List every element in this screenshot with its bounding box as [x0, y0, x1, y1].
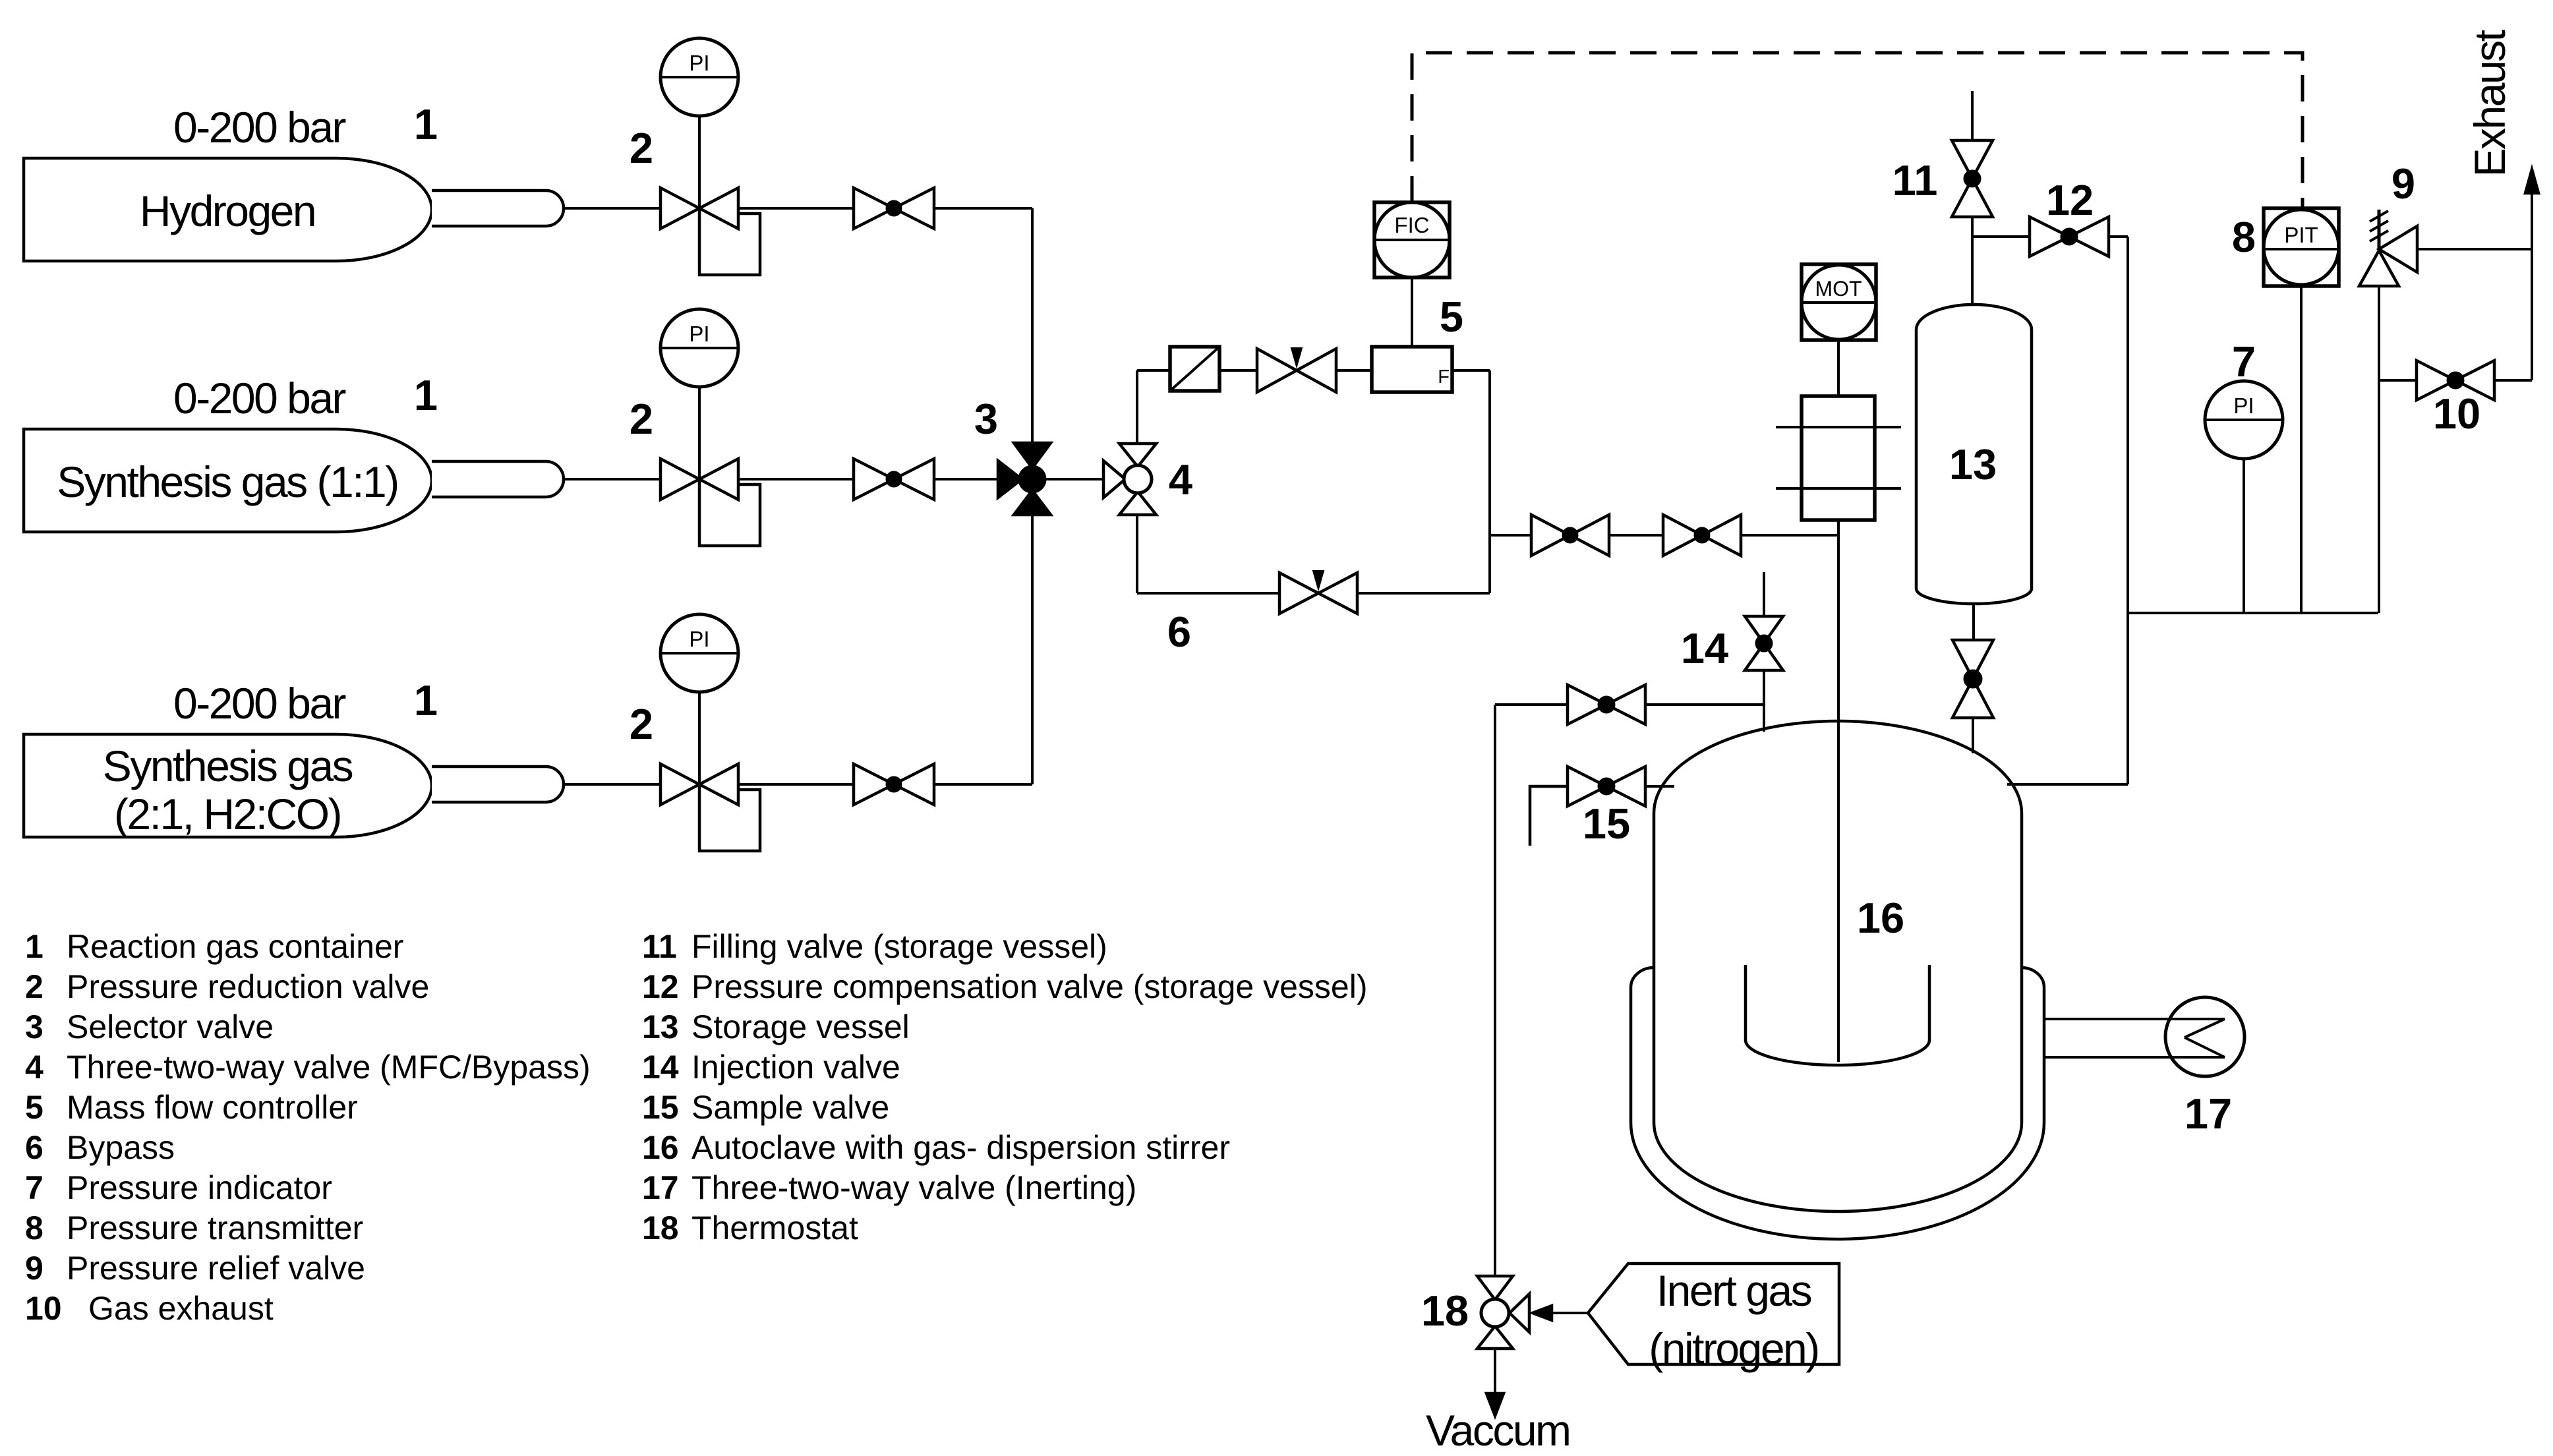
pressure reduction valve 2 (row 1)	[660, 188, 760, 275]
svg-text:8: 8	[25, 1209, 44, 1246]
svg-text:Pressure transmitter: Pressure transmitter	[67, 1209, 363, 1246]
svg-text:F: F	[1438, 366, 1450, 388]
shutoff valve (injection line)	[1568, 685, 1645, 724]
autoclave heating jacket	[1631, 968, 2044, 1239]
svg-text:6: 6	[25, 1129, 44, 1166]
wire injection line left segment	[1495, 703, 1568, 706]
svg-text:Selector valve: Selector valve	[67, 1008, 274, 1045]
svg-text:8: 8	[2232, 213, 2256, 261]
svg-text:1: 1	[414, 676, 438, 724]
label 15	[1583, 800, 1630, 848]
svg-text:9: 9	[25, 1250, 44, 1287]
PI pressure indicator gauge (row 1)	[660, 38, 738, 116]
wire feed line from loop	[1490, 534, 1531, 537]
svg-text:15: 15	[642, 1089, 679, 1126]
label Exhaust	[2465, 30, 2514, 177]
filling valve 11 (storage vessel)	[1952, 140, 1993, 217]
svg-text:5: 5	[1440, 293, 1463, 341]
inert gas (nitrogen) flag	[1588, 1264, 1839, 1373]
svg-text:16: 16	[642, 1129, 679, 1166]
svg-text:4: 4	[25, 1049, 44, 1086]
label 8	[2232, 213, 2256, 261]
svg-text:Vaccum: Vaccum	[1426, 1406, 1570, 1455]
vacuum line with arrow	[1486, 1349, 1504, 1416]
check valve	[1170, 347, 1219, 391]
gas dispersion stirrer cup	[1746, 965, 1929, 1065]
selector valve 3 (three-way, filled)	[998, 443, 1051, 515]
PI gauge stem (row 3)	[698, 691, 701, 784]
wire bypass segment left	[1137, 592, 1279, 595]
label 1 (row 2)	[414, 371, 438, 419]
svg-text:PI: PI	[2233, 393, 2254, 418]
wire autoclave inlet from riser	[2007, 783, 2128, 786]
label 6	[1167, 608, 1191, 656]
svg-text:PI: PI	[689, 627, 709, 651]
wire injection line right segment	[1645, 703, 1764, 706]
svg-text:4: 4	[1169, 455, 1192, 504]
svg-text:13: 13	[642, 1008, 679, 1045]
PI pressure indicator gauge (row 2)	[660, 309, 738, 387]
svg-text:6: 6	[1167, 608, 1191, 656]
label 4	[1169, 455, 1192, 504]
svg-text:0-200 bar: 0-200 bar	[173, 103, 346, 152]
svg-text:Exhaust: Exhaust	[2465, 30, 2514, 177]
magnetic coupling housing	[1776, 396, 1901, 520]
label 0-200 bar (row 1)	[173, 103, 346, 152]
svg-text:(nitrogen): (nitrogen)	[1649, 1324, 1818, 1373]
wire selector valve to valve 4	[1045, 478, 1103, 480]
svg-text:PI: PI	[689, 322, 709, 346]
label 3	[974, 395, 998, 443]
mass flow controller 5	[1372, 347, 1452, 392]
legend column 1	[25, 928, 591, 1327]
svg-text:16: 16	[1857, 894, 1904, 942]
label 9	[2392, 160, 2415, 208]
pressure relief valve 9	[2359, 210, 2417, 286]
wire shutoff valve to collector (row 2)	[934, 478, 998, 480]
wire valve 2 to shutoff valve (row 3)	[738, 783, 855, 786]
wire valve 2 to shutoff valve (row 2)	[738, 478, 855, 480]
svg-text:Reaction gas container: Reaction gas container	[67, 928, 403, 965]
label 18	[1421, 1287, 1469, 1335]
wire valve 10 to exhaust riser	[2494, 379, 2532, 382]
svg-text:PI: PI	[689, 51, 709, 75]
dashed control line FIC to PIT	[1412, 53, 2303, 208]
inert gas arrow into valve 18	[1533, 1306, 1588, 1320]
label 14	[1681, 624, 1728, 672]
wire relief line to gas exhaust valve	[2379, 379, 2417, 382]
shutoff valve (feed line 2)	[1663, 515, 1741, 556]
PI gauge stem (row 1)	[698, 115, 701, 208]
svg-text:FIC: FIC	[1394, 213, 1429, 237]
label 0-200 bar (row 2)	[173, 374, 346, 422]
svg-text:1: 1	[414, 371, 438, 419]
pressure reduction valve 2 (row 2)	[660, 459, 760, 546]
bypass needle valve 6	[1279, 571, 1357, 614]
svg-text:1: 1	[25, 928, 44, 965]
svg-text:Mass flow controller: Mass flow controller	[67, 1089, 358, 1126]
label 17	[2185, 1090, 2232, 1138]
gas cylinder 1 (reaction gas container, row 3)	[24, 734, 564, 838]
svg-text:Hydrogen: Hydrogen	[140, 187, 315, 235]
wire PIT stem	[2300, 286, 2303, 613]
svg-text:0-200 bar: 0-200 bar	[173, 374, 346, 422]
three-way thermostat valve 18	[1477, 1276, 1529, 1349]
wire cylinder to valve 2 (row 1)	[564, 207, 660, 210]
svg-text:Gas exhaust: Gas exhaust	[88, 1290, 274, 1327]
autoclave 16 vessel body	[1654, 721, 2022, 1211]
svg-text:2: 2	[630, 395, 653, 443]
label 12	[2046, 176, 2094, 224]
svg-text:3: 3	[974, 395, 998, 443]
wire bypass segment right	[1357, 592, 1490, 595]
thermostat circle 17	[2165, 997, 2245, 1076]
FIC flow controller instrument	[1374, 202, 1450, 277]
svg-text:Three-two-way valve (MFC/Bypas: Three-two-way valve (MFC/Bypass)	[67, 1049, 591, 1086]
shutoff valve (feed line 1)	[1531, 515, 1609, 556]
svg-text:Synthesis gas (1:1): Synthesis gas (1:1)	[57, 457, 397, 506]
label 2 (row 1)	[630, 124, 653, 172]
svg-text:Inert gas: Inert gas	[1657, 1266, 1811, 1315]
svg-text:Bypass: Bypass	[67, 1129, 175, 1166]
svg-text:14: 14	[642, 1049, 679, 1086]
wire MFC branch segment 1	[1137, 369, 1170, 372]
svg-text:PIT: PIT	[2284, 223, 2318, 247]
wire shutoff valve to collector (row 1)	[934, 207, 1032, 210]
wire PI 7 stem	[2243, 459, 2245, 613]
legend column 2	[642, 928, 1367, 1246]
wire stub above filling valve 11	[1971, 91, 1974, 140]
svg-text:12: 12	[642, 968, 679, 1005]
svg-text:15: 15	[1583, 800, 1630, 848]
label 16	[1857, 894, 1904, 942]
wire loop right vertical	[1488, 370, 1491, 593]
PI pressure indicator 7	[2205, 381, 2283, 459]
svg-text:14: 14	[1681, 624, 1728, 672]
svg-text:7: 7	[25, 1169, 44, 1206]
exhaust riser with arrow	[2525, 169, 2538, 380]
label 10	[2433, 390, 2480, 438]
gas exhaust valve 10	[2417, 361, 2494, 400]
wire injection/inerting line vertical	[1494, 705, 1496, 1276]
wire feed line middle	[1609, 534, 1663, 537]
svg-text:11: 11	[1893, 156, 1938, 204]
shutoff valve (row 1)	[854, 188, 934, 229]
wire feed line to stirrer shaft	[1741, 534, 1838, 537]
PI gauge stem (row 2)	[698, 386, 701, 479]
svg-text:Filling valve (storage vessel): Filling valve (storage vessel)	[691, 928, 1107, 965]
wire valve 11 to storage vessel	[1971, 217, 1974, 306]
label 1 (row 1)	[414, 100, 438, 148]
wire valve 4 up to MFC branch	[1136, 370, 1138, 444]
stirrer shaft	[1837, 520, 1840, 1062]
svg-text:18: 18	[1421, 1287, 1469, 1335]
injection valve 14	[1745, 616, 1783, 670]
wire FIC to mass flow controller	[1411, 277, 1413, 347]
wire right riser (valve 12 down to autoclave)	[2127, 237, 2129, 784]
svg-text:1: 1	[414, 100, 438, 148]
pressure compensation valve 12 (storage vessel)	[2030, 217, 2109, 256]
shutoff valve (row 2)	[854, 459, 934, 500]
label 2 (row 2)	[630, 395, 653, 443]
wire relief valve down to header	[2378, 286, 2380, 613]
svg-text:Thermostat: Thermostat	[691, 1209, 858, 1246]
svg-text:MOT: MOT	[1815, 277, 1862, 301]
svg-text:2: 2	[25, 968, 44, 1005]
storage vessel 13	[1916, 305, 2032, 604]
wire valve 12 to right riser	[2109, 235, 2128, 238]
MOT stirrer motor	[1802, 264, 1876, 340]
label 0-200 bar (row 3)	[173, 679, 346, 728]
label 5	[1440, 293, 1463, 341]
svg-text:Storage vessel: Storage vessel	[691, 1008, 910, 1045]
wire instrument header	[2128, 612, 2378, 614]
svg-text:9: 9	[2392, 160, 2415, 208]
wire injection valve into autoclave	[1763, 670, 1765, 732]
PI pressure indicator gauge (row 3)	[660, 614, 738, 692]
wire collector vertical top (row1 to selector valve)	[1031, 208, 1034, 443]
three-two-way valve 4 (MFC/Bypass)	[1103, 444, 1156, 515]
wire collector vertical bottom (selector valve to row3)	[1031, 515, 1034, 784]
svg-text:2: 2	[630, 700, 653, 748]
label Vaccum	[1426, 1406, 1570, 1455]
gas cylinder 1 (reaction gas container, row 1)	[24, 158, 564, 261]
wire shutoff valve to collector (row 3)	[934, 783, 1032, 786]
svg-text:10: 10	[2433, 390, 2480, 438]
svg-text:12: 12	[2046, 176, 2094, 224]
sample valve 15	[1568, 767, 1645, 806]
wire sample line hook	[1530, 786, 1568, 846]
svg-text:(2:1, H2:CO): (2:1, H2:CO)	[114, 790, 341, 838]
label 11	[1893, 156, 1938, 204]
svg-text:11: 11	[642, 928, 677, 965]
svg-text:Synthesis gas: Synthesis gas	[103, 742, 353, 790]
shutoff valve (row 3)	[854, 764, 934, 805]
storage vessel outlet valve	[1952, 640, 1993, 718]
svg-text:Pressure relief valve: Pressure relief valve	[67, 1250, 365, 1287]
wire storage vessel valve to autoclave	[1972, 718, 1974, 753]
svg-text:13: 13	[1949, 440, 1997, 488]
wire storage vessel bottom	[1972, 604, 1975, 640]
label 1 (row 3)	[414, 676, 438, 724]
svg-text:Injection valve: Injection valve	[691, 1049, 900, 1086]
svg-text:3: 3	[25, 1008, 44, 1045]
wire needle valve to mass flow controller	[1336, 369, 1372, 372]
svg-text:7: 7	[2232, 337, 2256, 386]
wire valve 4 down to bypass branch	[1136, 515, 1138, 593]
wire motor to coupling	[1837, 340, 1840, 396]
svg-text:Autoclave with gas- dispersion: Autoclave with gas- dispersion stirrer	[691, 1129, 1230, 1166]
needle valve (MFC inlet)	[1257, 348, 1336, 392]
svg-text:Pressure compensation valve (s: Pressure compensation valve (storage ves…	[691, 968, 1367, 1005]
wire relief valve to exhaust line	[2417, 248, 2532, 250]
svg-text:10: 10	[25, 1290, 62, 1327]
svg-text:17: 17	[642, 1169, 679, 1206]
svg-text:Pressure indicator: Pressure indicator	[67, 1169, 332, 1206]
svg-text:0-200 bar: 0-200 bar	[173, 679, 346, 728]
wire MFC to loop right vertical	[1452, 369, 1490, 372]
svg-text:Sample valve: Sample valve	[691, 1089, 889, 1126]
wire check valve to needle valve	[1219, 369, 1257, 372]
svg-text:17: 17	[2185, 1090, 2232, 1138]
thermostat nozzle pipes	[2044, 1019, 2225, 1057]
svg-text:Three-two-way valve (Inerting): Three-two-way valve (Inerting)	[691, 1169, 1136, 1206]
label 7	[2232, 337, 2256, 386]
pressure reduction valve 2 (row 3)	[660, 764, 760, 851]
wire valve 2 to shutoff valve (row 1)	[738, 207, 855, 210]
wire sample valve to autoclave	[1645, 785, 1674, 788]
wire stub above injection valve 14	[1763, 572, 1765, 616]
label 2 (row 3)	[630, 700, 653, 748]
wire cylinder to valve 2 (row 3)	[564, 783, 660, 786]
wire branch to valve 12	[1972, 235, 2030, 238]
PIT pressure transmitter 8	[2264, 208, 2339, 286]
svg-text:18: 18	[642, 1209, 679, 1246]
gas cylinder 1 (reaction gas container, row 2)	[24, 429, 564, 532]
svg-text:5: 5	[25, 1089, 44, 1126]
svg-text:Pressure reduction valve: Pressure reduction valve	[67, 968, 429, 1005]
label 13	[1949, 440, 1997, 488]
svg-text:2: 2	[630, 124, 653, 172]
wire cylinder to valve 2 (row 2)	[564, 478, 660, 480]
